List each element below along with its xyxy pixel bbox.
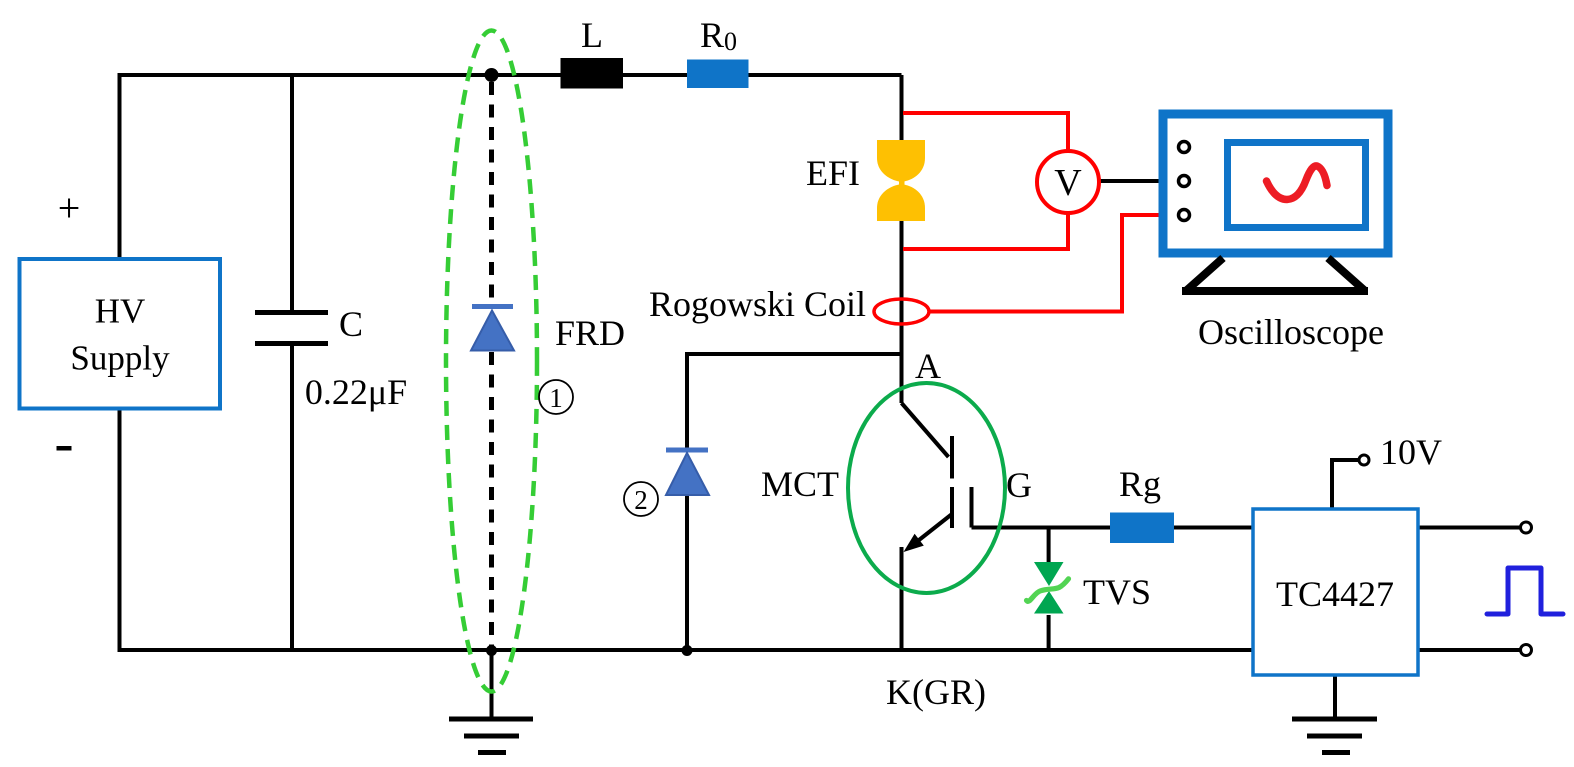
svg-text:2: 2 bbox=[634, 485, 648, 515]
svg-text:0.22μF: 0.22μF bbox=[305, 372, 407, 412]
svg-text:TVS: TVS bbox=[1083, 572, 1151, 612]
svg-text:FRD: FRD bbox=[555, 313, 625, 353]
svg-text:L: L bbox=[581, 15, 603, 55]
svg-text:1: 1 bbox=[549, 383, 563, 413]
svg-text:V: V bbox=[1054, 162, 1082, 204]
svg-text:EFI: EFI bbox=[806, 153, 860, 193]
svg-text:HV: HV bbox=[95, 292, 146, 331]
svg-text:Supply: Supply bbox=[70, 339, 170, 378]
svg-text:TC4427: TC4427 bbox=[1276, 574, 1394, 614]
svg-text:Oscilloscope: Oscilloscope bbox=[1198, 312, 1384, 352]
svg-text:K(GR): K(GR) bbox=[886, 672, 986, 712]
svg-text:10V: 10V bbox=[1380, 432, 1442, 472]
svg-text:MCT: MCT bbox=[761, 464, 839, 504]
svg-text:C: C bbox=[339, 304, 363, 344]
svg-text:Rg: Rg bbox=[1119, 464, 1161, 504]
svg-text:G: G bbox=[1006, 465, 1032, 505]
svg-text:+: + bbox=[58, 186, 81, 231]
svg-text:Rogowski Coil: Rogowski Coil bbox=[649, 284, 866, 324]
svg-text:A: A bbox=[915, 346, 941, 386]
